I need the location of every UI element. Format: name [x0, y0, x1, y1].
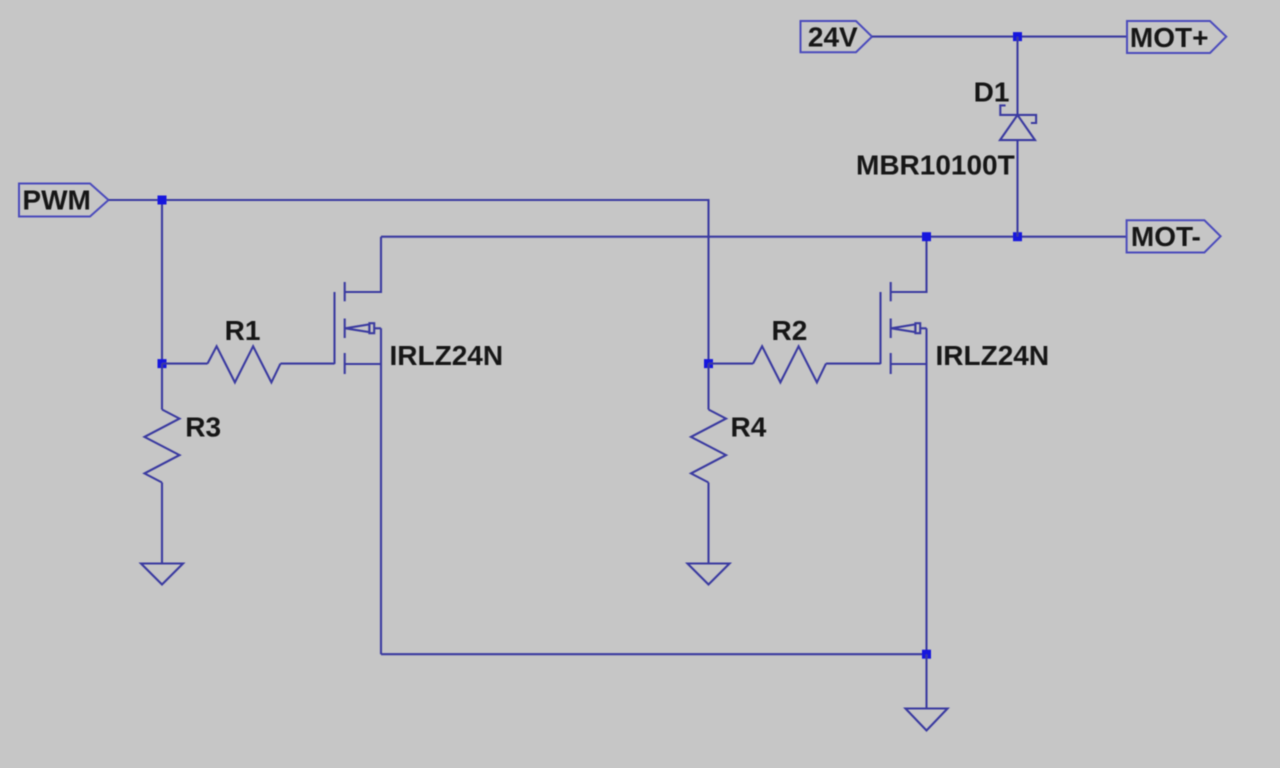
ground (main)	[906, 709, 948, 731]
source lead	[891, 363, 927, 365]
wire node to R4	[707, 364, 709, 410]
svg-text:PWM: PWM	[22, 184, 90, 215]
wire M1 source down to bottom rail	[380, 328, 382, 654]
port flag MOT+	[1127, 21, 1226, 53]
svg-text:R2: R2	[772, 315, 808, 346]
svg-text:MBR10100T: MBR10100T	[856, 149, 1015, 180]
wire PWM rail	[109, 200, 709, 364]
channel top segment	[890, 282, 892, 301]
drain lead	[891, 237, 927, 292]
node junction R1/R3	[158, 359, 167, 368]
wire node to R2	[709, 363, 754, 365]
channel bottom segment	[344, 353, 346, 374]
body arrow	[345, 324, 369, 332]
channel bottom segment	[890, 353, 892, 374]
diode D1 MBR10100T (schottky, cathode up)	[1000, 37, 1036, 237]
wire PWM to R1/R3 node	[161, 200, 163, 364]
gate bar	[879, 292, 881, 364]
schottky cathode bar	[1000, 105, 1036, 123]
svg-text:R3: R3	[185, 412, 221, 443]
port flag PWM	[19, 184, 109, 217]
svg-text:R1: R1	[225, 315, 261, 346]
node junction bottom rail / ground	[922, 650, 931, 659]
gate bar	[333, 292, 335, 364]
resistor R3	[145, 410, 180, 483]
svg-text:D1: D1	[974, 77, 1010, 108]
channel middle segment	[344, 319, 346, 339]
cathode lead	[1016, 37, 1018, 115]
resistor R4	[691, 410, 726, 483]
wire to main ground	[925, 654, 927, 708]
resistor R1	[208, 346, 281, 382]
body arrow	[891, 324, 915, 332]
node junction 24V rail / D1 cathode	[1013, 32, 1022, 41]
wire M2 source down to bottom rail	[925, 328, 927, 654]
wire R4 to ground	[707, 483, 709, 564]
transistor M1 IRLZ24N	[335, 237, 382, 374]
node junction R2/R4	[704, 359, 713, 368]
source lead	[345, 363, 381, 365]
anode lead	[1016, 140, 1018, 237]
ground (R4)	[688, 564, 730, 585]
wire MOT- rail	[381, 236, 1127, 238]
svg-text:MOT-: MOT-	[1131, 221, 1201, 252]
port flag MOT-	[1127, 220, 1221, 252]
svg-text:IRLZ24N: IRLZ24N	[936, 340, 1050, 371]
channel top segment	[344, 282, 346, 301]
wire R3 to ground	[161, 483, 163, 564]
node junction M2 drain / MOT- rail	[922, 232, 931, 241]
node junction PWM rail / gate divider	[158, 196, 167, 205]
wire 24V to MOT+	[872, 36, 1127, 38]
wire node to R3	[161, 364, 163, 410]
svg-text:24V: 24V	[808, 21, 858, 52]
port flag 24V	[801, 21, 873, 52]
resistor R2	[753, 346, 826, 382]
svg-text:R4: R4	[731, 412, 767, 443]
svg-text:IRLZ24N: IRLZ24N	[390, 340, 504, 371]
wire R1 to M1 gate	[281, 363, 335, 365]
drain lead	[345, 237, 381, 292]
ground (R3)	[141, 564, 183, 585]
svg-text:MOT+: MOT+	[1130, 22, 1209, 53]
wire node to R1	[162, 363, 208, 365]
triangle	[1000, 115, 1035, 140]
wire R2 to M2 gate	[826, 363, 881, 365]
transistor M2 IRLZ24N	[881, 237, 927, 374]
channel middle segment	[890, 319, 892, 339]
wire bottom source rail	[381, 653, 927, 655]
node junction D1 anode / MOT- rail	[1013, 232, 1022, 241]
